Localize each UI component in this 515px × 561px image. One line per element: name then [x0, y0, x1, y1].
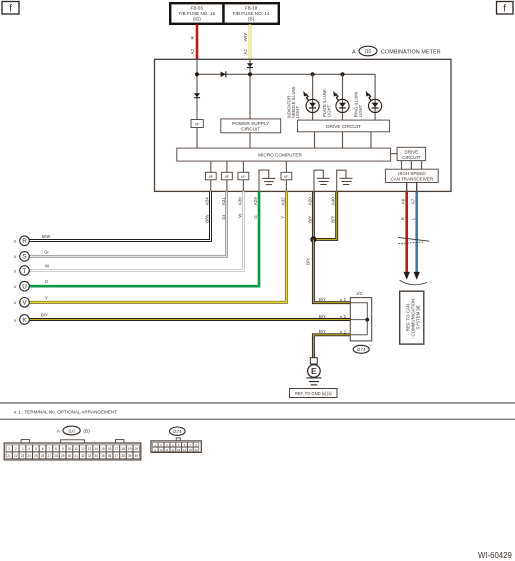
wire micro computer to I/F A30: [242, 161, 244, 172]
svg-text:*: *: [340, 315, 343, 322]
wire G A29 to connector U: [29, 191, 259, 286]
svg-text:Y: Y: [280, 216, 285, 219]
svg-text:11: 11: [165, 448, 168, 452]
wire transceiver to terminal A7: [416, 183, 418, 192]
svg-text:A :: A :: [352, 50, 358, 56]
node junction A2/bus: [195, 72, 199, 76]
svg-text:i10: i10: [365, 49, 372, 55]
svg-text:35: 35: [101, 454, 105, 458]
wire A1 branch inside meter: [249, 59, 251, 119]
svg-text:B/Y: B/Y: [41, 313, 48, 318]
svg-text:FB-55: FB-55: [191, 5, 204, 10]
svg-text:12: 12: [171, 448, 175, 452]
separator line lower: [0, 418, 515, 420]
node junction bus/LED1: [311, 72, 315, 76]
svg-text:I/F: I/F: [241, 175, 246, 179]
page marker f top-right: [497, 2, 514, 15]
I/F box A34: [205, 172, 216, 180]
i10 pin grid: [6, 445, 139, 459]
svg-text:15: 15: [101, 447, 105, 451]
wire W/Y from fuse 14: [249, 25, 252, 60]
combination meter unit box U1: [155, 59, 452, 191]
svg-text:1: 1: [8, 447, 10, 451]
arrow CAN L: [414, 272, 420, 280]
svg-text:2: 2: [15, 447, 17, 451]
label ring illumi light: [354, 91, 363, 117]
svg-text:DRIVE CIRCUIT: DRIVE CIRCUIT: [326, 124, 361, 129]
wire B/Y A20 down: [312, 191, 315, 239]
svg-text:B/Y: B/Y: [307, 216, 312, 223]
connector K: [14, 315, 29, 325]
svg-text:13: 13: [88, 447, 92, 451]
I/F box A32: [281, 172, 292, 180]
high speed CAN transceiver box: [385, 169, 438, 182]
node junction B/Y: [310, 236, 316, 242]
svg-text:T: T: [23, 268, 27, 275]
arrow CAN R: [404, 272, 410, 280]
wire R red from fuse 15: [196, 25, 199, 60]
svg-text:Gr: Gr: [221, 214, 226, 219]
svg-text:Y: Y: [45, 295, 48, 300]
svg-text:30: 30: [68, 454, 72, 458]
svg-text:6: 6: [14, 269, 16, 273]
svg-text:W/Y: W/Y: [243, 33, 248, 42]
LED3 ring illumination light: [366, 91, 382, 113]
svg-text:6: 6: [14, 285, 16, 289]
svg-text:WI-60429: WI-60429: [478, 551, 512, 560]
svg-text:F/B FUSE NO. 15: F/B FUSE NO. 15: [179, 11, 216, 16]
wire I/F to terminal A34: [210, 180, 212, 192]
svg-text:i274: i274: [357, 347, 366, 352]
svg-text:40: 40: [135, 454, 139, 458]
svg-text:(B): (B): [248, 16, 255, 21]
connector i274 pinout: [151, 438, 201, 453]
svg-text:23: 23: [21, 454, 25, 458]
svg-text:S: S: [22, 254, 26, 261]
diode D2 down-pointing on A1 branch: [247, 63, 253, 67]
svg-text:V: V: [22, 300, 27, 307]
wire B/Y J/C pin bottom to ground: [313, 335, 350, 358]
svg-text:G: G: [253, 215, 258, 219]
svg-text:17: 17: [115, 447, 119, 451]
svg-text:A31: A31: [221, 197, 226, 206]
svg-text:33: 33: [88, 454, 92, 458]
wire I/F to terminal A32: [285, 180, 287, 192]
svg-text:B/Y: B/Y: [319, 329, 326, 334]
svg-text:f: f: [9, 4, 12, 15]
label plate illumi light: [322, 88, 331, 117]
svg-text:14: 14: [94, 447, 98, 451]
wire I/F to terminal A31: [226, 180, 228, 192]
svg-text:1 : TERMINAL No. OPTIONAL ARR: 1 : TERMINAL No. OPTIONAL ARRANGEMENT: [18, 410, 117, 415]
svg-text:A6: A6: [401, 198, 406, 204]
svg-text:G: G: [45, 279, 49, 284]
connector i10 pinout: [4, 440, 141, 460]
connector T: [14, 266, 29, 276]
svg-text:A7: A7: [411, 198, 416, 204]
internal ground for A40: [337, 170, 353, 191]
svg-text:*: *: [14, 411, 17, 418]
diode D3 down-pointing on A2 branch: [194, 93, 200, 97]
svg-text:39: 39: [128, 454, 132, 458]
wire B/Y A40 down and left: [313, 191, 336, 239]
wire micro computer to I/F A32: [285, 161, 287, 172]
i274 pin grid: [153, 442, 199, 451]
svg-text:B/Y: B/Y: [306, 258, 311, 265]
svg-text:(IG): (IG): [193, 16, 201, 21]
wire micro computer to I/F A34: [210, 161, 212, 172]
svg-text:1: 1: [344, 297, 347, 302]
label indicator needle illumi light: [286, 86, 300, 119]
ground connector square: [310, 358, 317, 364]
svg-text:16: 16: [108, 447, 112, 451]
internal ground for A20: [314, 170, 330, 191]
arc under CAN arrows: [400, 280, 427, 284]
label A: (i10) COMBINATION METER: [352, 46, 441, 56]
svg-text:K: K: [22, 317, 27, 324]
svg-text:27: 27: [48, 454, 52, 458]
svg-text:11: 11: [74, 447, 78, 451]
svg-text:B/W: B/W: [205, 214, 210, 223]
svg-text:E: E: [311, 366, 317, 376]
svg-text:I/F: I/F: [209, 175, 214, 179]
wire A2 branch inside meter: [196, 59, 198, 119]
svg-text:CIRCUIT: CIRCUIT: [402, 155, 420, 160]
I/F box A30: [238, 172, 249, 180]
svg-text:37: 37: [115, 454, 119, 458]
svg-text:38: 38: [121, 454, 125, 458]
wire W A30 to connector T: [29, 191, 243, 270]
svg-text:FB-18: FB-18: [245, 5, 258, 10]
connector S: [14, 252, 29, 262]
svg-text:21: 21: [7, 454, 11, 458]
oval i274: [353, 345, 369, 353]
LED1 indicator needle illumination light: [303, 91, 319, 113]
wire L blue CAN A7: [415, 191, 418, 272]
svg-text:MICRO COMPUTER: MICRO COMPUTER: [258, 153, 302, 158]
svg-text:(B): (B): [83, 429, 90, 435]
wire LED1 branch: [312, 74, 314, 120]
svg-text:f: f: [503, 4, 506, 15]
svg-text:32: 32: [81, 454, 85, 458]
svg-text:A :: A :: [57, 429, 63, 435]
svg-text:A20: A20: [307, 197, 312, 206]
svg-text:I/F: I/F: [225, 175, 230, 179]
wire Y A32 to connector V: [29, 191, 286, 302]
svg-text:10: 10: [68, 447, 72, 451]
drive circuit box (CAN): [397, 147, 426, 160]
ref to CAN communication system box: [400, 291, 424, 344]
svg-text:19: 19: [128, 447, 132, 451]
wire transceiver to terminal A6: [406, 183, 408, 192]
svg-text:34: 34: [94, 454, 98, 458]
diode D1 right-pointing on bus: [221, 71, 226, 77]
wire B/Y junction to J/C pin top: [313, 239, 350, 302]
I/F interface box on A2 branch: [191, 120, 203, 128]
svg-text:U: U: [22, 284, 27, 291]
ref to GND box: [290, 389, 338, 398]
svg-text:6: 6: [42, 447, 44, 451]
ground bars: [306, 378, 321, 385]
svg-text:3: 3: [22, 447, 24, 451]
wire I/F to terminal A30: [242, 180, 244, 192]
node junction A1/bus: [248, 72, 252, 76]
svg-text:A34: A34: [205, 197, 210, 206]
svg-text:a: a: [14, 318, 16, 322]
svg-text:i274: i274: [173, 429, 182, 434]
svg-text:LIGHT: LIGHT: [358, 104, 363, 117]
connector U: [14, 281, 29, 291]
wire power supply to micro computer: [249, 133, 251, 148]
svg-text:i10: i10: [69, 429, 76, 434]
drive circuit box (LED driver): [298, 120, 390, 132]
wire I/F to micro computer: [196, 128, 198, 149]
I/F box A31: [222, 172, 233, 180]
fuse box FB-55 F/B FUSE NO.15 (IG): [170, 3, 223, 24]
svg-text:LIGHT: LIGHT: [295, 106, 300, 119]
svg-text:4: 4: [28, 447, 30, 451]
wire Gr A31 to connector S: [29, 191, 226, 256]
wire B/Y connector K to J/C pin middle: [29, 318, 350, 321]
junction connector J/C box: [350, 298, 371, 341]
svg-text:I/F: I/F: [284, 175, 289, 179]
wire drive circuit to transceiver x3: [401, 161, 403, 170]
svg-text:12: 12: [81, 447, 85, 451]
wire R red CAN A6: [405, 191, 408, 272]
svg-text:B/Y: B/Y: [331, 216, 336, 223]
svg-text:26: 26: [41, 454, 45, 458]
svg-text:F/B FUSE NO. 14: F/B FUSE NO. 14: [233, 11, 270, 16]
wire micro computer to drive circuit 2: [391, 153, 398, 155]
svg-text:5: 5: [35, 447, 37, 451]
label A: (i10) (B): [57, 426, 90, 435]
svg-text:A1: A1: [243, 48, 248, 54]
connector R: [14, 236, 29, 246]
fuse box FB-18 F/B FUSE NO.14 (B): [224, 3, 279, 24]
wire LED3 branch: [374, 99, 376, 120]
svg-text:10: 10: [160, 448, 164, 452]
internal ground for A29: [259, 170, 275, 191]
svg-text:COMBINATION METER: COMBINATION METER: [381, 50, 441, 56]
LED2 plate illumination light: [333, 91, 349, 113]
svg-text:28: 28: [54, 454, 58, 458]
svg-text:CIRCUIT: CIRCUIT: [241, 127, 260, 132]
svg-text:HIGH SPEED: HIGH SPEED: [398, 171, 427, 176]
svg-text:13: 13: [177, 448, 181, 452]
svg-text:Gr: Gr: [44, 249, 49, 254]
svg-text:29: 29: [61, 454, 65, 458]
separator line upper: [0, 402, 515, 404]
svg-text:6: 6: [14, 255, 16, 259]
wire micro computer to I/F A31: [226, 161, 228, 172]
svg-text:18: 18: [121, 447, 125, 451]
connector i274 label oval: [170, 427, 186, 435]
wire B/W A34 to connector R: [29, 191, 210, 240]
svg-text:8: 8: [55, 447, 57, 451]
svg-text:22: 22: [14, 454, 18, 458]
power supply circuit box: [221, 119, 281, 133]
svg-text:B/W: B/W: [42, 234, 51, 239]
page marker f top-left: [2, 2, 19, 15]
svg-text:25: 25: [34, 454, 38, 458]
wire drive circuit to micro computer x3: [314, 132, 316, 148]
svg-text:A30: A30: [237, 197, 242, 206]
twisted pair mark: [398, 237, 429, 243]
svg-text:6: 6: [14, 240, 16, 244]
wire feed bus horizontal: [197, 74, 375, 99]
svg-text:14: 14: [183, 448, 187, 452]
connector V: [14, 298, 29, 308]
svg-text:A40: A40: [331, 197, 336, 206]
svg-text:I/F: I/F: [195, 122, 200, 127]
wire LED2 branch: [342, 74, 344, 120]
svg-text:16: 16: [195, 448, 199, 452]
svg-text:31: 31: [74, 454, 78, 458]
svg-text:DRIVE: DRIVE: [405, 149, 419, 154]
svg-text:36: 36: [108, 454, 112, 458]
svg-text:LIGHT: LIGHT: [327, 104, 332, 117]
svg-text:9: 9: [62, 447, 64, 451]
svg-text:POWER SUPPLY: POWER SUPPLY: [232, 121, 270, 126]
svg-text:6: 6: [14, 301, 16, 305]
svg-text:A32: A32: [280, 197, 285, 206]
node junction bus/LED2: [340, 72, 344, 76]
svg-text:CAN TRANSCEIVER: CAN TRANSCEIVER: [390, 177, 433, 182]
svg-text:B/Y: B/Y: [319, 314, 326, 319]
svg-text:REF. TO GND [x] [x]: REF. TO GND [x] [x]: [295, 391, 332, 396]
micro computer box: [177, 148, 391, 161]
svg-text:1: 1: [344, 314, 347, 319]
svg-text:B/Y: B/Y: [319, 297, 326, 302]
svg-text:R: R: [22, 238, 27, 245]
svg-text:*: *: [340, 298, 343, 305]
svg-text:A29: A29: [253, 197, 258, 206]
svg-text:24: 24: [27, 454, 31, 458]
svg-text:J/C: J/C: [356, 291, 363, 296]
ground E circle: [308, 365, 321, 378]
svg-text:7: 7: [48, 447, 50, 451]
svg-text:SYSTEM [d]: SYSTEM [d]: [415, 306, 420, 330]
svg-text:A2: A2: [190, 48, 195, 54]
svg-text:15: 15: [189, 448, 193, 452]
svg-text:R: R: [400, 217, 405, 220]
svg-text:20: 20: [135, 447, 139, 451]
